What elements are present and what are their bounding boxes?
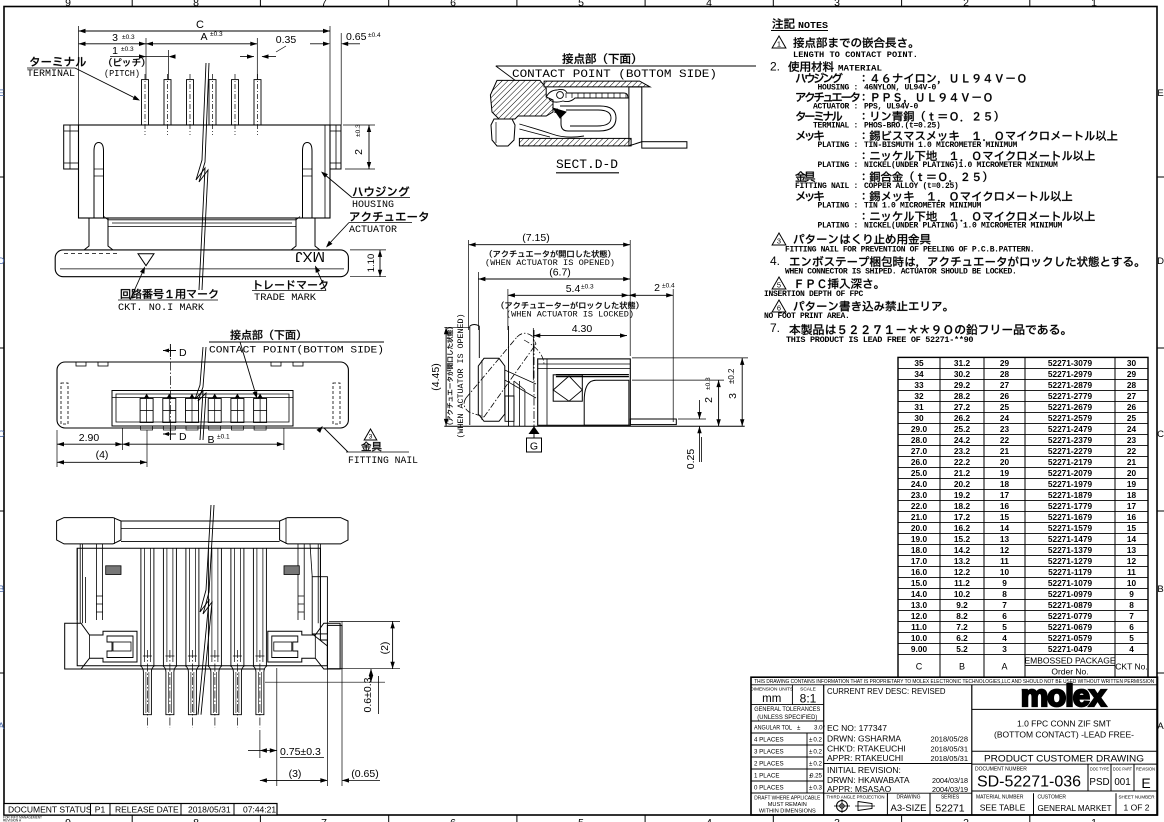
svg-text:52271-1679: 52271-1679 — [1048, 512, 1093, 522]
housing left mount tab — [64, 125, 79, 169]
contact point arrowhead — [553, 108, 566, 118]
svg-text:LENGTH TO CONTACT POINT.: LENGTH TO CONTACT POINT. — [793, 51, 918, 60]
svg-text:2.: 2. — [770, 60, 780, 74]
svg-text:30: 30 — [914, 413, 924, 423]
svg-text:9: 9 — [65, 0, 71, 9]
svg-text:52271-1879: 52271-1879 — [1048, 490, 1093, 500]
svg-text:TRADE MARK: TRADE MARK — [254, 292, 317, 304]
dimension 1 ±0.3 (pitch) — [168, 50, 170, 80]
svg-text:DRWN: GSHARMA: DRWN: GSHARMA — [827, 734, 901, 744]
svg-text:±0.3: ±0.3 — [705, 377, 712, 390]
dim (4.45) vertical — [444, 326, 470, 328]
break line view4 — [195, 347, 203, 440]
svg-text:19: 19 — [1000, 468, 1010, 478]
svg-text:29: 29 — [1000, 358, 1010, 368]
svg-text:(0.65): (0.65) — [351, 768, 378, 780]
svg-text:PLATING :: PLATING : — [817, 202, 858, 211]
molex logo box — [972, 708, 1158, 710]
svg-text:15.0: 15.0 — [911, 578, 928, 588]
svg-text:5: 5 — [1002, 622, 1007, 632]
svg-text:CHK'D: RTAKEUCHI: CHK'D: RTAKEUCHI — [827, 744, 906, 754]
datum G symbol — [529, 426, 540, 434]
svg-text:EC NO: 177347: EC NO: 177347 — [827, 723, 887, 733]
svg-text:35: 35 — [914, 358, 924, 368]
svg-text:9.2: 9.2 — [956, 600, 968, 610]
proprietary banner — [751, 684, 1158, 686]
svg-text:23: 23 — [1000, 424, 1010, 434]
dim 0.75±0.3 — [259, 730, 261, 758]
svg-text:NICKEL(UNDER PLATING)1.0 MICRO: NICKEL(UNDER PLATING)1.0 MICROMETER MINI… — [864, 161, 1058, 170]
svg-text:DIMENSION UNITS: DIMENSION UNITS — [750, 687, 793, 693]
svg-text:3: 3 — [727, 393, 739, 399]
break line view5 — [198, 505, 211, 715]
svg-text:1: 1 — [1091, 817, 1097, 822]
left fitting nail — [65, 623, 137, 669]
svg-text:20: 20 — [1127, 468, 1137, 478]
svg-text:0.65: 0.65 — [346, 31, 367, 43]
svg-text:mm: mm — [762, 693, 781, 705]
dim 0.6±0.3 — [265, 681, 385, 683]
label ckt no.1 mark — [121, 289, 218, 299]
svg-text:(6.7): (6.7) — [549, 267, 571, 279]
ground line — [444, 425, 744, 427]
svg-text:52271-1079: 52271-1079 — [1048, 578, 1093, 588]
svg-text:8: 8 — [193, 0, 199, 9]
svg-text:NO FOOT PRINT AREA.: NO FOOT PRINT AREA. — [764, 312, 850, 321]
svg-text:28: 28 — [1127, 380, 1137, 390]
svg-text:25: 25 — [1000, 402, 1010, 412]
svg-text:THIS PRODUCT IS LEAD FREE OF 5: THIS PRODUCT IS LEAD FREE OF 52271-**90 — [786, 335, 973, 345]
svg-text:17: 17 — [1127, 501, 1137, 511]
svg-text:REVISION: REVISION — [1136, 767, 1155, 772]
svg-text:4: 4 — [706, 0, 712, 9]
svg-text:24: 24 — [1000, 413, 1010, 423]
svg-text:18: 18 — [1127, 490, 1137, 500]
dim 2 ±0.4 — [672, 289, 674, 422]
svg-text:6: 6 — [1129, 622, 1134, 632]
svg-text:25.2: 25.2 — [954, 424, 971, 434]
svg-text:DRAFT WHERE APPLICABLE: DRAFT WHERE APPLICABLE — [754, 796, 820, 802]
svg-text:12: 12 — [1127, 556, 1137, 566]
svg-text:52271-1479: 52271-1479 — [1048, 534, 1093, 544]
svg-text:±: ± — [809, 785, 813, 792]
svg-text:25: 25 — [1127, 413, 1137, 423]
svg-text:SERIES: SERIES — [941, 795, 960, 801]
svg-text:21: 21 — [1000, 446, 1010, 456]
svg-text:52271-1579: 52271-1579 — [1048, 523, 1093, 533]
bottom strip boxes — [886, 793, 888, 815]
svg-text:COPPER ALLOY (t=0.25): COPPER ALLOY (t=0.25) — [864, 182, 959, 191]
svg-text:15: 15 — [1000, 512, 1010, 522]
svg-text:2: 2 — [353, 149, 365, 155]
note 6 — [772, 300, 786, 312]
svg-text:27: 27 — [1127, 391, 1137, 401]
svg-text:1 OF 2: 1 OF 2 — [1124, 803, 1150, 813]
svg-text:PRODUCT CUSTOMER DRAWING: PRODUCT CUSTOMER DRAWING — [984, 754, 1144, 764]
svg-text:1: 1 — [112, 45, 118, 57]
svg-text:0.35: 0.35 — [276, 34, 297, 46]
svg-text:ACTUATOR :: ACTUATOR : — [813, 103, 858, 112]
note 3 — [772, 233, 786, 245]
svg-text:10: 10 — [1127, 578, 1137, 588]
zone ticks left/right — [0, 176, 4, 178]
solder tail — [642, 142, 687, 148]
dim 0.25 — [678, 418, 706, 420]
svg-text:0.2: 0.2 — [813, 749, 822, 756]
svg-text:3: 3 — [777, 237, 781, 246]
svg-text:TIN-BISMUTH 1.0 MICROMETER MIN: TIN-BISMUTH 1.0 MICROMETER MINIMUM — [864, 141, 1018, 150]
svg-text:DOC TYPE: DOC TYPE — [1090, 767, 1109, 772]
terminal pins — [142, 80, 149, 125]
svg-text:6: 6 — [450, 0, 456, 9]
svg-text:8: 8 — [1129, 600, 1134, 610]
svg-text:24.0: 24.0 — [911, 479, 928, 489]
svg-text:7: 7 — [1002, 600, 1007, 610]
svg-text:13.2: 13.2 — [954, 556, 971, 566]
svg-text:PLATING :: PLATING : — [817, 141, 858, 150]
svg-text:22: 22 — [1000, 435, 1010, 445]
svg-text:19.2: 19.2 — [954, 490, 971, 500]
body outline — [77, 548, 327, 666]
svg-text:30: 30 — [1127, 358, 1137, 368]
svg-text:INSERTION DEPTH OF FPC: INSERTION DEPTH OF FPC — [764, 290, 864, 299]
svg-text:E: E — [0, 88, 4, 99]
svg-text:33: 33 — [914, 380, 924, 390]
svg-text:SEE TABLE: SEE TABLE — [980, 803, 1026, 813]
svg-text:MUST REMAIN: MUST REMAIN — [768, 802, 807, 808]
right side wing and pad — [312, 577, 327, 634]
open actuator solid lever — [478, 358, 505, 421]
svg-text:±0.2: ±0.2 — [727, 368, 736, 384]
right wall — [629, 87, 642, 146]
svg-text:29.2: 29.2 — [954, 380, 971, 390]
svg-text:9: 9 — [65, 817, 71, 822]
third angle projection symbols — [837, 801, 848, 812]
svg-text:1 PLACE: 1 PLACE — [754, 773, 779, 780]
svg-text:12.2: 12.2 — [954, 567, 971, 577]
svg-text:±: ± — [797, 725, 801, 732]
section D marks — [163, 350, 176, 352]
svg-text:7: 7 — [321, 0, 327, 9]
svg-text:0.3: 0.3 — [813, 785, 822, 792]
view4 body — [57, 362, 348, 428]
note 1 — [772, 36, 786, 48]
svg-text:±0.3: ±0.3 — [210, 31, 223, 38]
svg-text:52271-2279: 52271-2279 — [1048, 446, 1093, 456]
svg-text:7: 7 — [321, 817, 327, 822]
svg-text:E: E — [1157, 88, 1163, 99]
top shield strip hatched — [544, 81, 650, 87]
svg-text:0 PLACES: 0 PLACES — [754, 785, 784, 792]
svg-text:±0.4: ±0.4 — [662, 283, 675, 290]
svg-text:3: 3 — [1002, 644, 1007, 654]
svg-text:SD-52271-036: SD-52271-036 — [977, 774, 1081, 791]
svg-text:16.2: 16.2 — [954, 523, 971, 533]
svg-text:52271-2079: 52271-2079 — [1048, 468, 1093, 478]
svg-text:18: 18 — [1000, 479, 1010, 489]
svg-text:Order No.: Order No. — [1051, 666, 1088, 676]
svg-text:A: A — [200, 31, 207, 43]
svg-text:20.2: 20.2 — [954, 479, 971, 489]
svg-text:13.0: 13.0 — [911, 600, 928, 610]
svg-text:3: 3 — [112, 32, 118, 44]
svg-text:7: 7 — [1129, 611, 1134, 621]
svg-text:31.2: 31.2 — [954, 358, 971, 368]
svg-text:52271-2179: 52271-2179 — [1048, 457, 1093, 467]
svg-text:A: A — [1001, 661, 1007, 671]
dimension 0.65 ±0.4 — [340, 33, 342, 125]
notes title — [772, 18, 794, 29]
svg-text:MATERIAL: MATERIAL — [838, 65, 882, 74]
svg-text:11.2: 11.2 — [954, 578, 970, 588]
svg-text:3.0°: 3.0° — [814, 725, 826, 732]
svg-text:SECT.D-D: SECT.D-D — [556, 157, 618, 172]
svg-text:14: 14 — [1000, 523, 1010, 533]
dimension A ±0.3 and 3 ±0.3 — [145, 38, 147, 80]
svg-text:(2): (2) — [379, 642, 391, 655]
svg-text:10: 10 — [1000, 567, 1010, 577]
svg-text:7.2: 7.2 — [956, 622, 968, 632]
svg-text:E: E — [1141, 775, 1150, 791]
svg-text:C: C — [196, 19, 204, 31]
svg-text:22.0: 22.0 — [911, 501, 928, 511]
svg-text:1: 1 — [1091, 0, 1097, 9]
svg-text:5.4: 5.4 — [566, 283, 581, 295]
svg-text:27.0: 27.0 — [911, 446, 928, 456]
svg-text:D: D — [1157, 256, 1164, 267]
svg-text:26.2: 26.2 — [954, 413, 971, 423]
svg-text:RELEASE DATE: RELEASE DATE — [115, 805, 179, 815]
svg-text:11: 11 — [1127, 567, 1136, 577]
svg-text:B: B — [0, 584, 4, 595]
svg-text:30.2: 30.2 — [954, 369, 971, 379]
FPC slot lines — [108, 219, 296, 221]
svg-text:C: C — [1157, 429, 1164, 440]
svg-text:16: 16 — [1000, 501, 1010, 511]
svg-text:5: 5 — [777, 281, 781, 290]
svg-text:4.30: 4.30 — [572, 323, 593, 335]
note 5 — [772, 277, 786, 289]
svg-text:15: 15 — [1127, 523, 1137, 533]
svg-text:23: 23 — [1127, 435, 1137, 445]
svg-text:REVISION A: REVISION A — [3, 819, 22, 822]
svg-text:4 PLACES: 4 PLACES — [754, 737, 784, 744]
svg-text:DOCUMENT NUMBER: DOCUMENT NUMBER — [975, 767, 1027, 773]
dim (7.15) — [468, 240, 470, 330]
svg-text:±0.3: ±0.3 — [355, 124, 362, 137]
svg-text:DOC PART: DOC PART — [1113, 767, 1132, 772]
svg-text:11.0: 11.0 — [911, 622, 927, 632]
svg-text:9.00: 9.00 — [911, 644, 928, 654]
svg-text:17: 17 — [1000, 490, 1010, 500]
svg-text:46NYLON, UL94V-0: 46NYLON, UL94V-0 — [864, 84, 937, 93]
svg-text:APPR: RTAKEUCHI: APPR: RTAKEUCHI — [827, 753, 903, 763]
svg-text:NOTES: NOTES — [798, 21, 829, 31]
svg-text:8: 8 — [1002, 589, 1007, 599]
ckt no.1 triangle mark — [138, 254, 154, 266]
svg-text:0.2: 0.2 — [813, 761, 822, 768]
svg-text:HOUSING :: HOUSING : — [817, 84, 858, 93]
dim (6.7) — [477, 272, 479, 330]
svg-text:4: 4 — [1129, 644, 1134, 654]
svg-text:DOCUMENT STATUS: DOCUMENT STATUS — [8, 805, 92, 815]
svg-text:±0.3: ±0.3 — [581, 284, 594, 291]
svg-text:TERMINAL :: TERMINAL : — [813, 122, 858, 131]
lower right block — [584, 380, 629, 425]
dim (3) — [326, 625, 328, 786]
svg-text:2: 2 — [963, 817, 969, 822]
svg-text:0.25: 0.25 — [810, 773, 823, 780]
dim (4) — [146, 430, 148, 467]
svg-text:3: 3 — [834, 817, 840, 822]
dim (2) — [329, 620, 400, 622]
svg-text:8:1: 8:1 — [800, 692, 817, 706]
svg-text:16.0: 16.0 — [911, 567, 928, 577]
svg-text:9: 9 — [1129, 589, 1134, 599]
svg-text:D: D — [179, 431, 187, 443]
svg-text:2018/05/31: 2018/05/31 — [188, 805, 231, 815]
dim 3 ±0.2 — [632, 357, 748, 359]
dimension C — [78, 26, 80, 125]
svg-text:CONTACT POINT(BOTTOM SIDE): CONTACT POINT(BOTTOM SIDE) — [209, 345, 384, 357]
svg-text:52271-0579: 52271-0579 — [1048, 633, 1093, 643]
svg-text:1: 1 — [777, 40, 781, 49]
terminal spring hook — [560, 106, 616, 131]
label terminal — [30, 57, 86, 67]
svg-text:29: 29 — [1127, 369, 1137, 379]
svg-text:28: 28 — [1000, 369, 1010, 379]
svg-text:52271-1279: 52271-1279 — [1048, 556, 1093, 566]
svg-text:2018/05/31: 2018/05/31 — [930, 745, 968, 754]
sect D-D contact point label jp — [562, 53, 635, 64]
svg-text:52271-1179: 52271-1179 — [1048, 567, 1092, 577]
dashed nail windows — [61, 383, 68, 424]
svg-text:23.2: 23.2 — [954, 446, 971, 456]
svg-text:(7.15): (7.15) — [522, 232, 549, 244]
svg-text:SHEET NUMBER: SHEET NUMBER — [1119, 795, 1156, 800]
revision column — [971, 685, 973, 815]
svg-text:D: D — [179, 347, 187, 359]
svg-text:ANGULAR TOL: ANGULAR TOL — [754, 725, 792, 732]
svg-text:52271-0479: 52271-0479 — [1048, 644, 1093, 654]
svg-text:1.10: 1.10 — [366, 254, 377, 273]
terminal strips — [140, 548, 142, 666]
svg-text:G: G — [530, 441, 538, 453]
svg-text:10.2: 10.2 — [954, 589, 971, 599]
svg-text:A: A — [0, 721, 5, 732]
svg-text:P1: P1 — [95, 805, 106, 815]
svg-text:52271: 52271 — [935, 803, 964, 815]
svg-text:7.: 7. — [770, 321, 780, 335]
svg-text:31: 31 — [914, 402, 924, 412]
svg-text:20.0: 20.0 — [911, 523, 928, 533]
svg-text:2004/03/18: 2004/03/18 — [932, 776, 968, 785]
svg-text:CONTACT POINT (BOTTOM SIDE): CONTACT POINT (BOTTOM SIDE) — [512, 69, 717, 81]
actuator arms inside housing — [94, 143, 104, 219]
svg-text:CKT. NO.I MARK: CKT. NO.I MARK — [118, 302, 205, 314]
svg-text:18.0: 18.0 — [911, 545, 928, 555]
svg-text:2018/05/28: 2018/05/28 — [930, 735, 968, 744]
dim (0.65) — [310, 779, 324, 781]
svg-text:52271-1979: 52271-1979 — [1048, 479, 1093, 489]
svg-text:28.2: 28.2 — [954, 391, 971, 401]
svg-text:FITTING NAIL: FITTING NAIL — [348, 455, 418, 467]
svg-text:2.90: 2.90 — [79, 432, 100, 444]
svg-text:26: 26 — [1000, 391, 1010, 401]
svg-text:FITTING NAIL :: FITTING NAIL : — [795, 182, 858, 191]
svg-text:22: 22 — [1127, 446, 1137, 456]
svg-text:DRAWING: DRAWING — [897, 795, 921, 801]
label actuator — [350, 212, 428, 222]
svg-text:2004/03/19: 2004/03/19 — [932, 785, 968, 794]
svg-text:27: 27 — [1000, 380, 1010, 390]
nail stems — [80, 544, 102, 623]
svg-text:19.0: 19.0 — [911, 534, 928, 544]
svg-text:FITTING NAIL FOR PREVENTION OF: FITTING NAIL FOR PREVENTION OF PEELING O… — [785, 246, 1034, 255]
centerline — [169, 347, 171, 440]
svg-text:12.0: 12.0 — [911, 611, 928, 621]
svg-text:10.0: 10.0 — [911, 633, 928, 643]
svg-text:4: 4 — [706, 817, 712, 822]
svg-text:25.0: 25.0 — [911, 468, 928, 478]
break line view1 — [196, 63, 206, 290]
svg-text:29.0: 29.0 — [911, 424, 928, 434]
fpc tail — [630, 419, 676, 425]
material rows — [796, 73, 843, 83]
svg-text:3: 3 — [834, 0, 840, 9]
svg-text:GENERAL TOLERANCES: GENERAL TOLERANCES — [754, 706, 820, 713]
dimension 2 ±0.3 right — [343, 124, 375, 126]
terminal lower arm — [519, 124, 584, 137]
svg-text:5: 5 — [578, 0, 584, 9]
svg-text:13: 13 — [1127, 545, 1137, 555]
svg-text:±: ± — [809, 749, 813, 756]
actuator cam links — [505, 370, 536, 398]
svg-text:CURRENT REV DESC: REVISED: CURRENT REV DESC: REVISED — [827, 687, 946, 696]
svg-text:5.2: 5.2 — [956, 644, 968, 654]
label housing — [353, 186, 409, 196]
actuator bar — [57, 518, 121, 544]
contact cross square — [553, 375, 582, 401]
svg-text:6: 6 — [450, 817, 456, 822]
svg-text:WHEN CONNECTOR IS SHIPED. ACTU: WHEN CONNECTOR IS SHIPED. ACTUATOR SHOUL… — [785, 268, 1016, 277]
svg-text:APPR: MSASAO: APPR: MSASAO — [827, 784, 892, 794]
svg-text:24.2: 24.2 — [954, 435, 971, 445]
svg-text:28.0: 28.0 — [911, 435, 928, 445]
svg-text:2: 2 — [963, 0, 969, 9]
svg-text:32: 32 — [914, 391, 924, 401]
svg-text:D: D — [0, 256, 5, 267]
bottom edge lines — [65, 668, 265, 670]
svg-text:23.0: 23.0 — [911, 490, 928, 500]
svg-text:TIN 1.0 MICROMETER MINIMUM: TIN 1.0 MICROMETER MINIMUM — [864, 202, 982, 211]
svg-text:6.2: 6.2 — [956, 633, 968, 643]
dim 2.90 — [56, 430, 58, 467]
svg-text:52271-1779: 52271-1779 — [1048, 501, 1093, 511]
svg-text:21.0: 21.0 — [911, 512, 928, 522]
svg-text:07:44:21: 07:44:21 — [243, 805, 276, 815]
svg-text:14: 14 — [1127, 534, 1137, 544]
svg-text:18.2: 18.2 — [954, 501, 971, 511]
right fitting nail — [268, 623, 340, 669]
contact windows — [140, 399, 153, 423]
svg-text:12: 12 — [1000, 545, 1010, 555]
svg-text:17.0: 17.0 — [911, 556, 928, 566]
svg-text:22.2: 22.2 — [954, 457, 971, 467]
svg-text:0.2: 0.2 — [813, 737, 822, 744]
svg-text:1.0 FPC CONN ZIF SMT: 1.0 FPC CONN ZIF SMT — [1017, 719, 1111, 729]
svg-text:(4): (4) — [96, 449, 109, 461]
